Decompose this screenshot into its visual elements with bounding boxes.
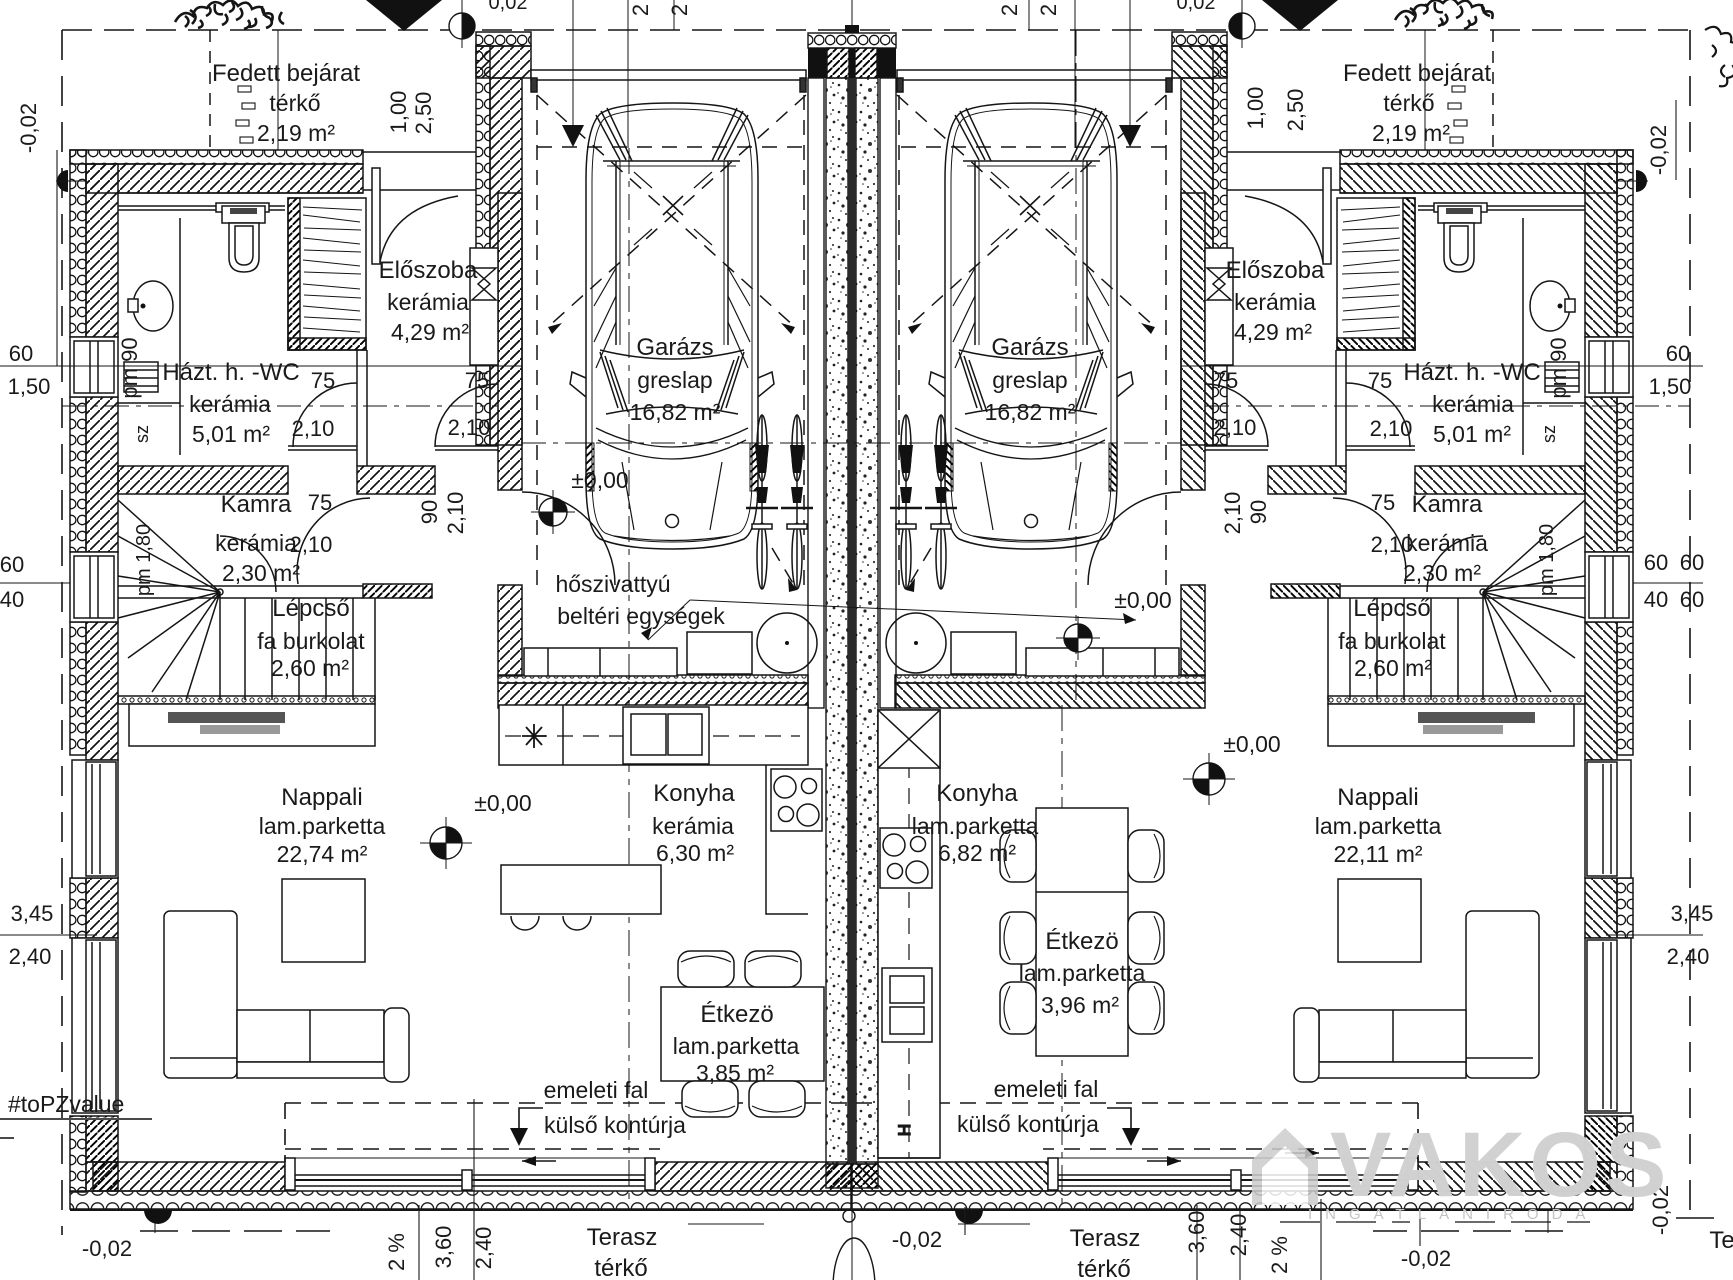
svg-text:40: 40 — [0, 587, 24, 612]
svg-text:VAKOS: VAKOS — [1330, 1114, 1670, 1216]
svg-text:60: 60 — [1680, 587, 1704, 612]
svg-text:emeleti fal: emeleti fal — [544, 1077, 649, 1103]
svg-text:3,60: 3,60 — [431, 1226, 456, 1269]
party wall top mark — [845, 25, 859, 33]
dishwasher X right — [878, 710, 940, 768]
island left — [501, 865, 661, 914]
chairs left dining — [678, 951, 805, 1117]
svg-text:1,50: 1,50 — [1649, 374, 1692, 399]
svg-text:Terasz: Terasz — [587, 1224, 658, 1251]
down arrow emeleti right — [1122, 1128, 1140, 1146]
svg-text:2,40: 2,40 — [1226, 1214, 1251, 1257]
level mark east wall — [1636, 170, 1647, 192]
right window opening arrow — [1285, 1152, 1319, 1154]
axis marker garage right — [1056, 616, 1100, 660]
svg-text:H: H — [895, 1124, 914, 1136]
svg-text:2,30 m²: 2,30 m² — [222, 560, 300, 586]
svg-text:2,30 m²: 2,30 m² — [1403, 560, 1481, 586]
svg-text:greslap: greslap — [637, 367, 712, 393]
svg-text:kerámia: kerámia — [1432, 391, 1514, 417]
svg-text:2 %: 2 % — [384, 1233, 409, 1271]
svg-text:Házt. h. -WC: Házt. h. -WC — [162, 359, 299, 386]
party wall plaster strips — [808, 78, 824, 708]
svg-text:Konyha: Konyha — [653, 780, 735, 807]
svg-text:lam.parketta: lam.parketta — [912, 813, 1039, 839]
svg-text:2,10: 2,10 — [292, 416, 335, 441]
section line margins — [62, 405, 498, 407]
svg-text:Előszoba: Előszoba — [1226, 257, 1325, 284]
H label box line right kitchen — [878, 1157, 940, 1159]
chairs right dining — [1000, 830, 1164, 1034]
section line garages — [522, 442, 1181, 444]
svg-text:2: 2 — [628, 4, 653, 16]
svg-text:3,45: 3,45 — [11, 901, 54, 926]
axis line left unit — [628, 148, 630, 1205]
svg-text:2,10: 2,10 — [1220, 492, 1245, 535]
svg-text:fa burkolat: fa burkolat — [257, 628, 365, 654]
svg-text:Kamra: Kamra — [221, 491, 292, 518]
svg-text:2,40: 2,40 — [9, 944, 52, 969]
svg-text:Kamra: Kamra — [1412, 491, 1483, 518]
kitchen left sink — [623, 707, 709, 764]
svg-text:60: 60 — [1666, 341, 1690, 366]
svg-text:±0,00: ±0,00 — [1223, 731, 1280, 757]
svg-text:lam.parketta: lam.parketta — [259, 813, 386, 839]
svg-text:-0,02: -0,02 — [82, 1236, 132, 1261]
svg-text:60: 60 — [1644, 550, 1668, 575]
svg-text:emeleti fal: emeleti fal — [994, 1076, 1099, 1102]
svg-text:2,40: 2,40 — [1667, 944, 1710, 969]
svg-text:-0,02: -0,02 — [16, 103, 41, 153]
svg-text:75: 75 — [465, 368, 489, 393]
stove right — [880, 828, 932, 888]
svg-text:Előszoba: Előszoba — [379, 257, 478, 284]
semicircle marker left unit — [144, 1210, 172, 1224]
party wall top corners — [808, 48, 827, 78]
svg-text:3,85 m²: 3,85 m² — [696, 1060, 774, 1086]
svg-text:-0,02: -0,02 — [892, 1227, 942, 1252]
tree top left — [175, 1, 284, 29]
svg-text:pm 90: pm 90 — [1546, 337, 1571, 398]
svg-text:75: 75 — [311, 368, 335, 393]
axis marker living right — [1183, 753, 1235, 805]
svg-text:0,02: 0,02 — [489, 0, 528, 14]
svg-text:2: 2 — [997, 4, 1022, 16]
svg-text:75: 75 — [1214, 368, 1238, 393]
svg-text:Ter: Ter — [1709, 1227, 1733, 1254]
svg-text:térkő: térkő — [1383, 90, 1434, 116]
svg-text:térkő: térkő — [594, 1255, 647, 1280]
svg-text:75: 75 — [308, 490, 332, 515]
svg-text:2,50: 2,50 — [1283, 89, 1308, 132]
svg-text:pm 1,80: pm 1,80 — [133, 524, 155, 596]
svg-text:pm 90: pm 90 — [117, 337, 142, 398]
svg-text:térkő: térkő — [269, 90, 320, 116]
svg-text:60: 60 — [0, 552, 24, 577]
survey marker top right — [1229, 0, 1255, 48]
axis line right unit — [1061, 705, 1063, 1205]
svg-text:kerámia: kerámia — [1406, 530, 1488, 556]
party wall footer block — [826, 1164, 878, 1188]
svg-text:1,50: 1,50 — [8, 374, 51, 399]
svg-text:90: 90 — [1246, 500, 1271, 524]
svg-text:Étkezö: Étkezö — [1045, 928, 1118, 955]
svg-text:2,19 m²: 2,19 m² — [1372, 120, 1450, 146]
site boundary dashed top — [62, 29, 1690, 31]
svg-text:75: 75 — [1371, 490, 1395, 515]
svg-text:Nappali: Nappali — [1337, 784, 1418, 811]
svg-text:±0,00: ±0,00 — [474, 790, 531, 816]
right unit structure (mirrored) — [886, 30, 1633, 1192]
svg-text:Fedett bejárat: Fedett bejárat — [1343, 60, 1491, 87]
svg-text:75: 75 — [1368, 368, 1392, 393]
svg-text:greslap: greslap — [992, 367, 1067, 393]
svg-text:lam.parketta: lam.parketta — [1315, 813, 1442, 839]
svg-text:kerámia: kerámia — [652, 813, 734, 839]
svg-text:beltéri egységek: beltéri egységek — [557, 603, 725, 629]
semicircle marker right of center — [955, 1210, 983, 1224]
svg-text:1,00: 1,00 — [1243, 87, 1268, 130]
svg-text:kerámia: kerámia — [387, 289, 469, 315]
party wall center joint — [848, 78, 856, 1164]
svg-text:külső kontúrja: külső kontúrja — [957, 1111, 1099, 1137]
svg-text:Konyha: Konyha — [936, 780, 1018, 807]
kitchen right strip — [878, 710, 940, 1158]
site boundary dashed east — [1689, 30, 1691, 1215]
paver symbol right — [1448, 86, 1467, 143]
survey marker top left — [449, 0, 475, 48]
level mark west wall — [57, 170, 68, 192]
fridge symbol left — [522, 724, 546, 748]
dining table right — [1036, 808, 1128, 1056]
svg-text:60: 60 — [1680, 550, 1704, 575]
left unit structure — [70, 30, 817, 1192]
svg-text:Lépcső: Lépcső — [1353, 595, 1430, 622]
svg-text:Garázs: Garázs — [636, 334, 713, 361]
svg-text:2,60 m²: 2,60 m² — [271, 655, 349, 681]
svg-text:hőszivattyú: hőszivattyú — [555, 571, 670, 597]
svg-text:-0,02: -0,02 — [1646, 125, 1671, 175]
svg-text:fa burkolat: fa burkolat — [1338, 628, 1446, 654]
site boundary dashed west — [61, 30, 63, 1235]
svg-text:90: 90 — [417, 500, 442, 524]
svg-text:0,02: 0,02 — [1177, 0, 1216, 14]
svg-text:Lépcső: Lépcső — [272, 595, 349, 622]
svg-text:sz: sz — [1539, 425, 1559, 443]
svg-text:kerámia: kerámia — [1234, 289, 1316, 315]
svg-text:térkő: térkő — [1077, 1256, 1130, 1280]
svg-text:Terasz: Terasz — [1070, 1225, 1141, 1252]
svg-text:Garázs: Garázs — [991, 334, 1068, 361]
svg-text:pm 1,80: pm 1,80 — [1536, 524, 1558, 596]
svg-text:2 %: 2 % — [1267, 1236, 1292, 1274]
svg-text:2,10: 2,10 — [1371, 532, 1414, 557]
party wall top insulation — [808, 33, 896, 48]
svg-text:külső kontúrja: külső kontúrja — [544, 1112, 686, 1138]
svg-text:6,30 m²: 6,30 m² — [656, 840, 734, 866]
svg-text:±0,00: ±0,00 — [571, 467, 628, 493]
svg-text:-0,02: -0,02 — [1401, 1246, 1451, 1271]
paver symbol left — [236, 86, 255, 143]
svg-text:Házt. h. -WC: Házt. h. -WC — [1403, 359, 1540, 386]
svg-text:16,82 m²: 16,82 m² — [985, 399, 1076, 425]
north triangle right — [1262, 0, 1338, 31]
svg-text:5,01 m²: 5,01 m² — [192, 421, 270, 447]
svg-text:22,11 m²: 22,11 m² — [1333, 841, 1422, 867]
svg-text:kerámia: kerámia — [189, 391, 271, 417]
svg-text:2,50: 2,50 — [411, 92, 436, 135]
svg-text:16,82 m²: 16,82 m² — [630, 399, 721, 425]
svg-text:2,10: 2,10 — [290, 532, 333, 557]
heat pump leader arrows — [690, 600, 1136, 620]
svg-text:lam.parketta: lam.parketta — [1019, 960, 1146, 986]
svg-text:6,82 m²: 6,82 m² — [938, 840, 1016, 866]
svg-text:2,40: 2,40 — [471, 1227, 496, 1270]
svg-text:2,60 m²: 2,60 m² — [1354, 655, 1432, 681]
top dim lines — [572, 0, 574, 125]
axis marker garage left — [531, 490, 575, 534]
fridge right — [882, 968, 932, 1042]
svg-text:2: 2 — [1036, 4, 1061, 16]
svg-text:2,19 m²: 2,19 m² — [257, 120, 335, 146]
kitchen left return counter — [766, 765, 808, 914]
tree top right — [1395, 0, 1493, 29]
ellipse section bubble — [833, 1238, 875, 1280]
dining table left — [661, 987, 824, 1081]
svg-text:3,45: 3,45 — [1671, 901, 1714, 926]
svg-text:4,29 m²: 4,29 m² — [1234, 319, 1312, 345]
axis marker living left — [420, 817, 472, 869]
svg-text:INGATLANIRODA: INGATLANIRODA — [1308, 1206, 1598, 1223]
svg-text:2,10: 2,10 — [448, 415, 491, 440]
svg-text:kerámia: kerámia — [215, 530, 297, 556]
svg-text:#toPZvalue: #toPZvalue — [8, 1091, 124, 1117]
down arrow emeleti left — [510, 1128, 528, 1146]
svg-text:2,10: 2,10 — [443, 492, 468, 535]
tree right edge — [1705, 27, 1733, 87]
svg-text:Fedett bejárat: Fedett bejárat — [212, 60, 360, 87]
watermark house icon — [1252, 1128, 1318, 1205]
svg-text:2,10: 2,10 — [1214, 415, 1257, 440]
svg-text:40: 40 — [1644, 587, 1668, 612]
svg-text:lam.parketta: lam.parketta — [673, 1033, 800, 1059]
svg-text:22,74 m²: 22,74 m² — [277, 841, 368, 867]
north triangle left — [366, 0, 442, 31]
svg-text:2: 2 — [667, 4, 692, 16]
party wall concrete cores — [826, 78, 848, 1164]
svg-text:4,29 m²: 4,29 m² — [391, 319, 469, 345]
svg-text:2,10: 2,10 — [1370, 416, 1413, 441]
svg-text:5,01 m²: 5,01 m² — [1433, 421, 1511, 447]
svg-text:±0,00: ±0,00 — [1114, 587, 1171, 613]
svg-text:60: 60 — [9, 341, 33, 366]
svg-text:1,00: 1,00 — [386, 91, 411, 134]
svg-text:Nappali: Nappali — [281, 784, 362, 811]
stove left — [771, 769, 822, 831]
svg-text:sz: sz — [132, 425, 152, 443]
kitchen left counter — [499, 705, 808, 765]
svg-text:Étkezö: Étkezö — [700, 1001, 773, 1028]
svg-text:3,96 m²: 3,96 m² — [1041, 992, 1119, 1018]
